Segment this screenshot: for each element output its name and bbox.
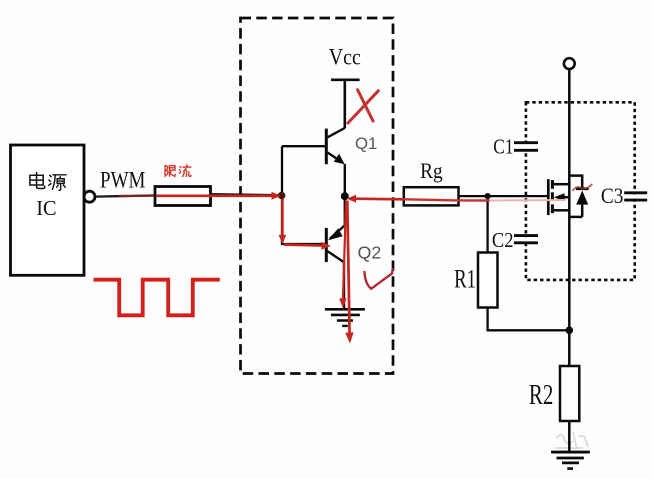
power IC box bbox=[11, 145, 85, 275]
label Vcc bbox=[329, 45, 361, 71]
svg-text:Q2: Q2 bbox=[358, 242, 382, 262]
red arrow into Q2 base bbox=[284, 242, 331, 250]
label PWM bbox=[100, 167, 145, 192]
label C3 bbox=[601, 183, 624, 208]
body diode bbox=[569, 176, 588, 217]
red squiggle on body diode bbox=[572, 184, 592, 191]
resistor R1 bbox=[478, 253, 498, 308]
svg-text:PWM: PWM bbox=[100, 167, 145, 192]
svg-text:C3: C3 bbox=[601, 183, 624, 208]
label 限 bbox=[165, 165, 175, 176]
dark red overlay on PWM wire bbox=[119, 195, 156, 198]
wire R2 to ground bbox=[568, 421, 571, 452]
label 电 bbox=[30, 172, 45, 188]
capacitor C2 bbox=[514, 236, 538, 243]
label C2 bbox=[492, 228, 514, 252]
red arrow Q2 collector to ground bbox=[339, 201, 347, 308]
wire PWM output to current-limit resistor bbox=[96, 195, 156, 196]
label IC bbox=[36, 196, 56, 220]
svg-text:Vcc: Vcc bbox=[329, 45, 361, 71]
svg-text:C2: C2 bbox=[492, 228, 514, 252]
drain terminal bbox=[564, 58, 575, 69]
node C (gate node) bbox=[485, 193, 491, 199]
red line through Rg bbox=[404, 199, 490, 200]
svg-text:C1: C1 bbox=[493, 135, 513, 159]
red X annotation bbox=[348, 90, 378, 123]
PWM output terminal bbox=[84, 191, 95, 202]
node A bbox=[278, 192, 286, 200]
ground (source) bbox=[551, 452, 590, 469]
node B bbox=[341, 192, 349, 200]
transistor Q1 bbox=[282, 128, 345, 196]
label C1 bbox=[493, 135, 513, 159]
label Q2 bbox=[358, 242, 382, 262]
red arrow PWM into node A bbox=[156, 192, 281, 200]
wire R1 to source node bbox=[488, 308, 566, 331]
capacitor C3 bbox=[624, 193, 647, 200]
svg-text:R1: R1 bbox=[454, 264, 476, 293]
red arrow through ground (long) bbox=[345, 201, 353, 344]
resistor R2 bbox=[560, 366, 579, 421]
PWM square wave bbox=[94, 280, 220, 316]
red arrow node A down bbox=[279, 199, 287, 244]
svg-text:Rg: Rg bbox=[420, 158, 443, 183]
wire Rg to gate bbox=[459, 195, 548, 197]
wire resistor to node A bbox=[211, 194, 280, 195]
MOSFET bbox=[548, 179, 569, 215]
driver stage dashed box bbox=[241, 18, 394, 374]
label 源 bbox=[49, 175, 66, 190]
MOSFET dotted box bbox=[526, 102, 635, 280]
label Rg bbox=[420, 158, 443, 183]
label R1 bbox=[454, 264, 476, 293]
wire drain-source main bbox=[568, 69, 571, 366]
resistor Rg bbox=[404, 187, 459, 205]
faint red line to gate bbox=[490, 199, 567, 202]
ground (driver stage) bbox=[325, 309, 365, 326]
node D (source/R2 junction) bbox=[566, 327, 574, 335]
red check annotation bbox=[364, 268, 392, 288]
label R2 bbox=[529, 380, 553, 411]
red arrow from Rg into node B bbox=[347, 195, 404, 203]
svg-text:R2: R2 bbox=[529, 380, 553, 411]
svg-text:Q1: Q1 bbox=[355, 134, 377, 153]
label Q1 bbox=[355, 134, 377, 153]
label 流 bbox=[179, 165, 191, 177]
current-limit resistor (限流) bbox=[155, 187, 211, 206]
transistor Q2 bbox=[282, 196, 345, 309]
Vcc rail bbox=[331, 80, 360, 128]
svg-text:IC: IC bbox=[36, 196, 56, 220]
capacitor C1 bbox=[514, 143, 538, 151]
watermark bbox=[555, 432, 588, 449]
wire node C to R1 bbox=[486, 196, 488, 252]
